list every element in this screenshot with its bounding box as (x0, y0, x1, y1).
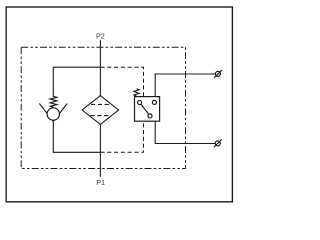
border frame (6, 7, 232, 202)
pressure switch contact pole (top-left) (138, 100, 142, 104)
pressure switch S1 body (135, 97, 160, 122)
wire: switch to top test point (155, 74, 215, 97)
check valve CV1 spring (50, 96, 57, 107)
wire: switch to bottom test point (155, 121, 215, 143)
wire: top branch to check valve (53, 67, 100, 96)
pilot line (dashed) upper to pressure switch (100, 67, 143, 96)
pressure switch contact throw (top-right) (152, 100, 156, 104)
wire: check valve bottom branch (53, 121, 100, 152)
pressure switch lever (140, 104, 149, 116)
check valve CV1 poppet ball (47, 108, 59, 120)
test point M2 circle (215, 141, 220, 146)
pilot line (dashed) lower to pressure switch (100, 121, 143, 152)
filter F1 (diamond) (82, 96, 119, 125)
wire: P1 line lower segment (99, 124, 101, 176)
svg-text:P2: P2 (96, 31, 105, 40)
svg-text:P1: P1 (96, 178, 105, 187)
filter element dashed line lower (91, 115, 111, 117)
check valve CV1 seat (39, 104, 67, 122)
wire: P2 line upper segment (99, 40, 101, 95)
filter element dashed line upper (91, 103, 110, 105)
test point M2 slash (214, 140, 222, 148)
pressure switch contact common (bottom) (148, 114, 152, 118)
test point M1 slash (214, 70, 222, 78)
pressure switch S1 spring (134, 89, 139, 97)
test point M1 circle (215, 71, 220, 76)
enclosure boundary (phantom dash-dot rectangle) (21, 47, 185, 168)
